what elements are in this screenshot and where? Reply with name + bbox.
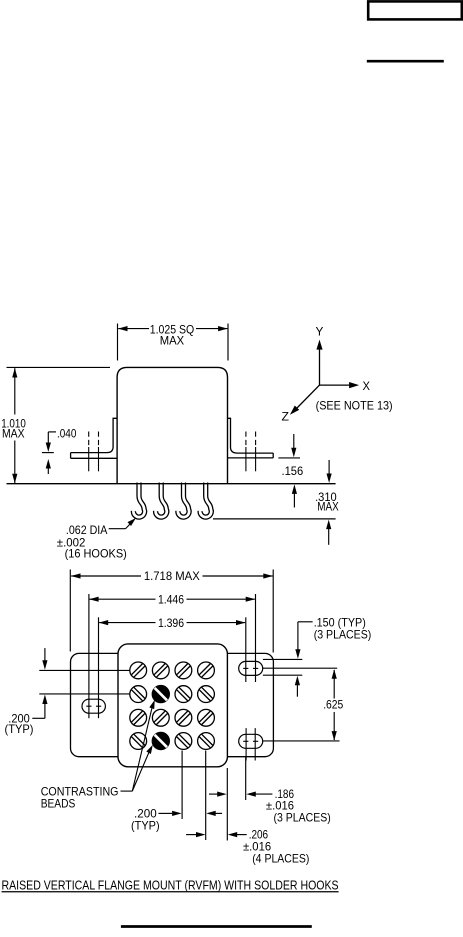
svg-text:Z: Z	[282, 410, 290, 424]
caption underline	[2, 891, 339, 893]
terminal row 2 col 4	[198, 686, 215, 703]
dim 1.396 - dimension line with arrows	[99, 622, 155, 624]
terminal row 2 col 1	[130, 686, 147, 703]
row 1 reference line (left)	[39, 669, 129, 671]
dim 1.446 - dimension line with arrows	[90, 598, 156, 600]
left flange plate (bottom view)	[71, 653, 131, 756]
svg-text:MAX: MAX	[160, 333, 184, 347]
dim .200 (TYP) bottom - leader and arrows	[159, 812, 173, 814]
svg-text:1.718 MAX: 1.718 MAX	[144, 569, 200, 583]
slot bottom extension line	[263, 674, 302, 676]
svg-text:(16 HOOKS): (16 HOOKS)	[65, 546, 127, 560]
right mounting flange (side view)	[228, 418, 274, 453]
svg-text:(4 PLACES): (4 PLACES)	[252, 851, 309, 865]
body right edge extension line (below)	[226, 768, 228, 841]
contrasting bead terminal row 4 col 2	[152, 732, 169, 749]
dim 1.025 SQ MAX - extension lines	[117, 324, 119, 361]
terminal row 1 col 3	[175, 662, 192, 679]
slot top extension line	[263, 658, 302, 660]
hook bottom extension line	[213, 518, 336, 520]
dim .040 - extension segment and arrows	[42, 452, 54, 454]
title block box (top right corner)	[368, 1, 462, 19]
terminal row 1 col 1	[130, 662, 147, 679]
terminal row 4 col 3	[175, 733, 192, 750]
column 4 extension line (below)	[205, 751, 207, 841]
terminal row 3 col 3	[175, 709, 192, 726]
dim 1.718 MAX - dimension line with arrows	[71, 575, 141, 577]
dim .200 (TYP) left - arrows and leader	[44, 648, 46, 662]
leader CONTRASTING BEADS	[121, 790, 133, 792]
right flange top mounting slot	[239, 661, 263, 675]
baseline - bottom extension line (body bottom)	[7, 483, 336, 485]
right top slot center marks	[243, 667, 248, 669]
svg-text:1.396: 1.396	[158, 616, 184, 630]
leader .062 DIA to hook 1	[109, 528, 126, 530]
left flange mounting slot	[82, 699, 105, 713]
left mounting flange (side view)	[71, 418, 118, 452]
svg-text:.625: .625	[323, 698, 343, 712]
top extension line for 1.010 MAX	[7, 366, 111, 368]
svg-text:MAX: MAX	[2, 426, 25, 440]
dim 1.010 MAX - dimension line with arrows	[14, 368, 16, 414]
svg-text:(SEE NOTE 13): (SEE NOTE 13)	[316, 399, 393, 413]
svg-text:Y: Y	[316, 325, 324, 339]
left slot center marks	[86, 705, 91, 707]
bottom slot center extension line	[263, 740, 340, 742]
dim 1.446 - extension lines (slot outer centers)	[88, 594, 90, 718]
slot center extension line	[263, 667, 337, 669]
dim .625 - dimension line with arrows	[333, 670, 335, 699]
svg-text:RAISED VERTICAL FLANGE MOUNT (: RAISED VERTICAL FLANGE MOUNT (RVFM) WITH…	[2, 878, 339, 892]
svg-text:(TYP): (TYP)	[131, 819, 160, 833]
svg-text:(3 PLACES): (3 PLACES)	[274, 810, 331, 824]
terminal row 3 col 2	[152, 709, 169, 726]
solder hook 3	[178, 483, 189, 518]
terminal row 4 col 4	[198, 733, 215, 750]
right bottom slot center marks	[243, 740, 248, 742]
solder hook 2	[156, 483, 167, 518]
terminal row 4 col 1	[130, 733, 147, 750]
svg-text:BEADS: BEADS	[41, 796, 76, 810]
svg-text:(TYP): (TYP)	[5, 722, 34, 736]
svg-text:.040: .040	[57, 426, 77, 440]
column 3 extension line (below)	[181, 751, 183, 820]
svg-text:X: X	[363, 379, 371, 393]
dim 1.025 SQ MAX - dimension line with arrows	[118, 328, 149, 330]
relay body (bottom view)	[118, 644, 227, 767]
terminal row 3 col 1	[130, 709, 147, 726]
dim 1.718 MAX - extension lines	[69, 570, 71, 652]
terminal row 1 col 2	[152, 662, 169, 679]
horizontal rule under title block	[367, 60, 444, 63]
dim .156 - down arrow and reference segment	[293, 434, 295, 448]
dim .206 +/-.016 (4 PLACES) - arrows	[186, 834, 196, 836]
svg-text:1.446: 1.446	[158, 592, 184, 606]
bottom separator bar	[121, 925, 312, 928]
slot inner center extension line (below)	[245, 757, 247, 800]
hidden slot lines in left flange	[88, 432, 90, 448]
terminal row 2 col 3	[175, 686, 192, 703]
row 2 reference line (left)	[39, 693, 129, 695]
contrasting bead terminal row 2 col 2	[152, 685, 169, 702]
terminal row 1 col 4	[198, 662, 215, 679]
dim .310 MAX - arrows	[328, 460, 330, 475]
dim .156 - up arrow to baseline	[293, 492, 295, 508]
dim 1.396 - extension lines (slot inner centers)	[98, 617, 100, 718]
right flange bottom mounting slot	[239, 734, 263, 748]
right flange plate (bottom view)	[215, 653, 273, 756]
coordinate axes X Y Z	[319, 347, 321, 385]
solder hook 1	[133, 483, 144, 518]
dim .186 +/-.016 (3 PLACES) - arrows	[209, 793, 218, 795]
svg-text:(3 PLACES): (3 PLACES)	[314, 628, 372, 642]
dim .150 (TYP) (3 PLACES) - leader and arrows	[298, 621, 313, 623]
svg-text:.156: .156	[282, 464, 304, 478]
solder hook 4	[200, 483, 211, 518]
hidden slot lines in right flange	[245, 432, 247, 448]
relay body (side view)	[117, 367, 227, 483]
svg-text:MAX: MAX	[317, 500, 339, 514]
terminal row 3 col 4	[198, 709, 215, 726]
